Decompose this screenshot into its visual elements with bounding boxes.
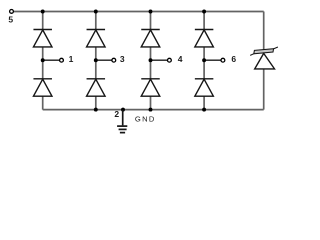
junction: bottom bus ground tap (121, 108, 125, 112)
svg-text:5: 5 (8, 14, 13, 24)
junction: top bus col 2 (94, 10, 98, 14)
diode D2 (column 1 bottom) (33, 79, 52, 96)
junction: node 4 (149, 58, 153, 62)
svg-text:GND: GND (135, 114, 156, 123)
wire: column 1 vertical segments (42, 12, 44, 110)
junction: top bus col 4 (202, 10, 206, 14)
diode D5 (column 3 top, anode down / cathode to top bus) (141, 30, 160, 47)
wire: stub to pin 3 (96, 59, 112, 61)
svg-text:2: 2 (114, 109, 119, 119)
terminal pin 6 (221, 58, 225, 62)
wire: stub to pin 4 (151, 59, 168, 61)
wire: column 4 vertical segments (203, 12, 205, 110)
terminal pin 4 (168, 58, 172, 62)
svg-text:4: 4 (178, 54, 183, 64)
junction: node 3 (94, 58, 98, 62)
diode D3 (column 2 top, anode down / cathode to top bus) (87, 30, 106, 47)
terminal pin 3 (112, 58, 116, 62)
junction: bottom bus col 4 (202, 108, 206, 112)
terminal pin 1 (60, 58, 64, 62)
junction: top bus col 1 (41, 10, 45, 14)
junction: node 6 (202, 58, 206, 62)
diode D1 (column 1 top, anode down / cathode to top bus) (33, 30, 52, 47)
wire: right vertical drop to zener cathode (263, 12, 265, 52)
diode D7 (column 4 top, anode down / cathode to top bus) (195, 30, 214, 47)
svg-text:3: 3 (120, 54, 125, 64)
diode D4 (column 2 bottom) (87, 79, 106, 96)
wire: stub to pin 6 (204, 59, 221, 61)
terminal pin 5 (10, 10, 14, 14)
wire: column 2 vertical segments (95, 12, 97, 110)
wire: zener anode lead to bottom bus (263, 69, 265, 110)
svg-text:6: 6 (231, 54, 236, 64)
junction: bottom bus col 2 (94, 108, 98, 112)
junction: bottom bus col 3 (149, 108, 153, 112)
wire: bottom bus from right corner to column 1 (43, 109, 264, 111)
ground symbol (117, 110, 127, 133)
zener diode Z1 (right column) (250, 47, 278, 69)
wire: top bus from pin 5 to right corner (14, 11, 264, 13)
diode D6 (column 3 bottom) (141, 79, 160, 96)
junction: node 1 (41, 58, 45, 62)
diode D8 (column 4 bottom) (195, 79, 214, 96)
svg-text:1: 1 (69, 54, 74, 64)
wire: column 3 vertical segments (150, 12, 152, 110)
junction: top bus col 3 (149, 10, 153, 14)
wire: stub to pin 1 (43, 59, 60, 61)
